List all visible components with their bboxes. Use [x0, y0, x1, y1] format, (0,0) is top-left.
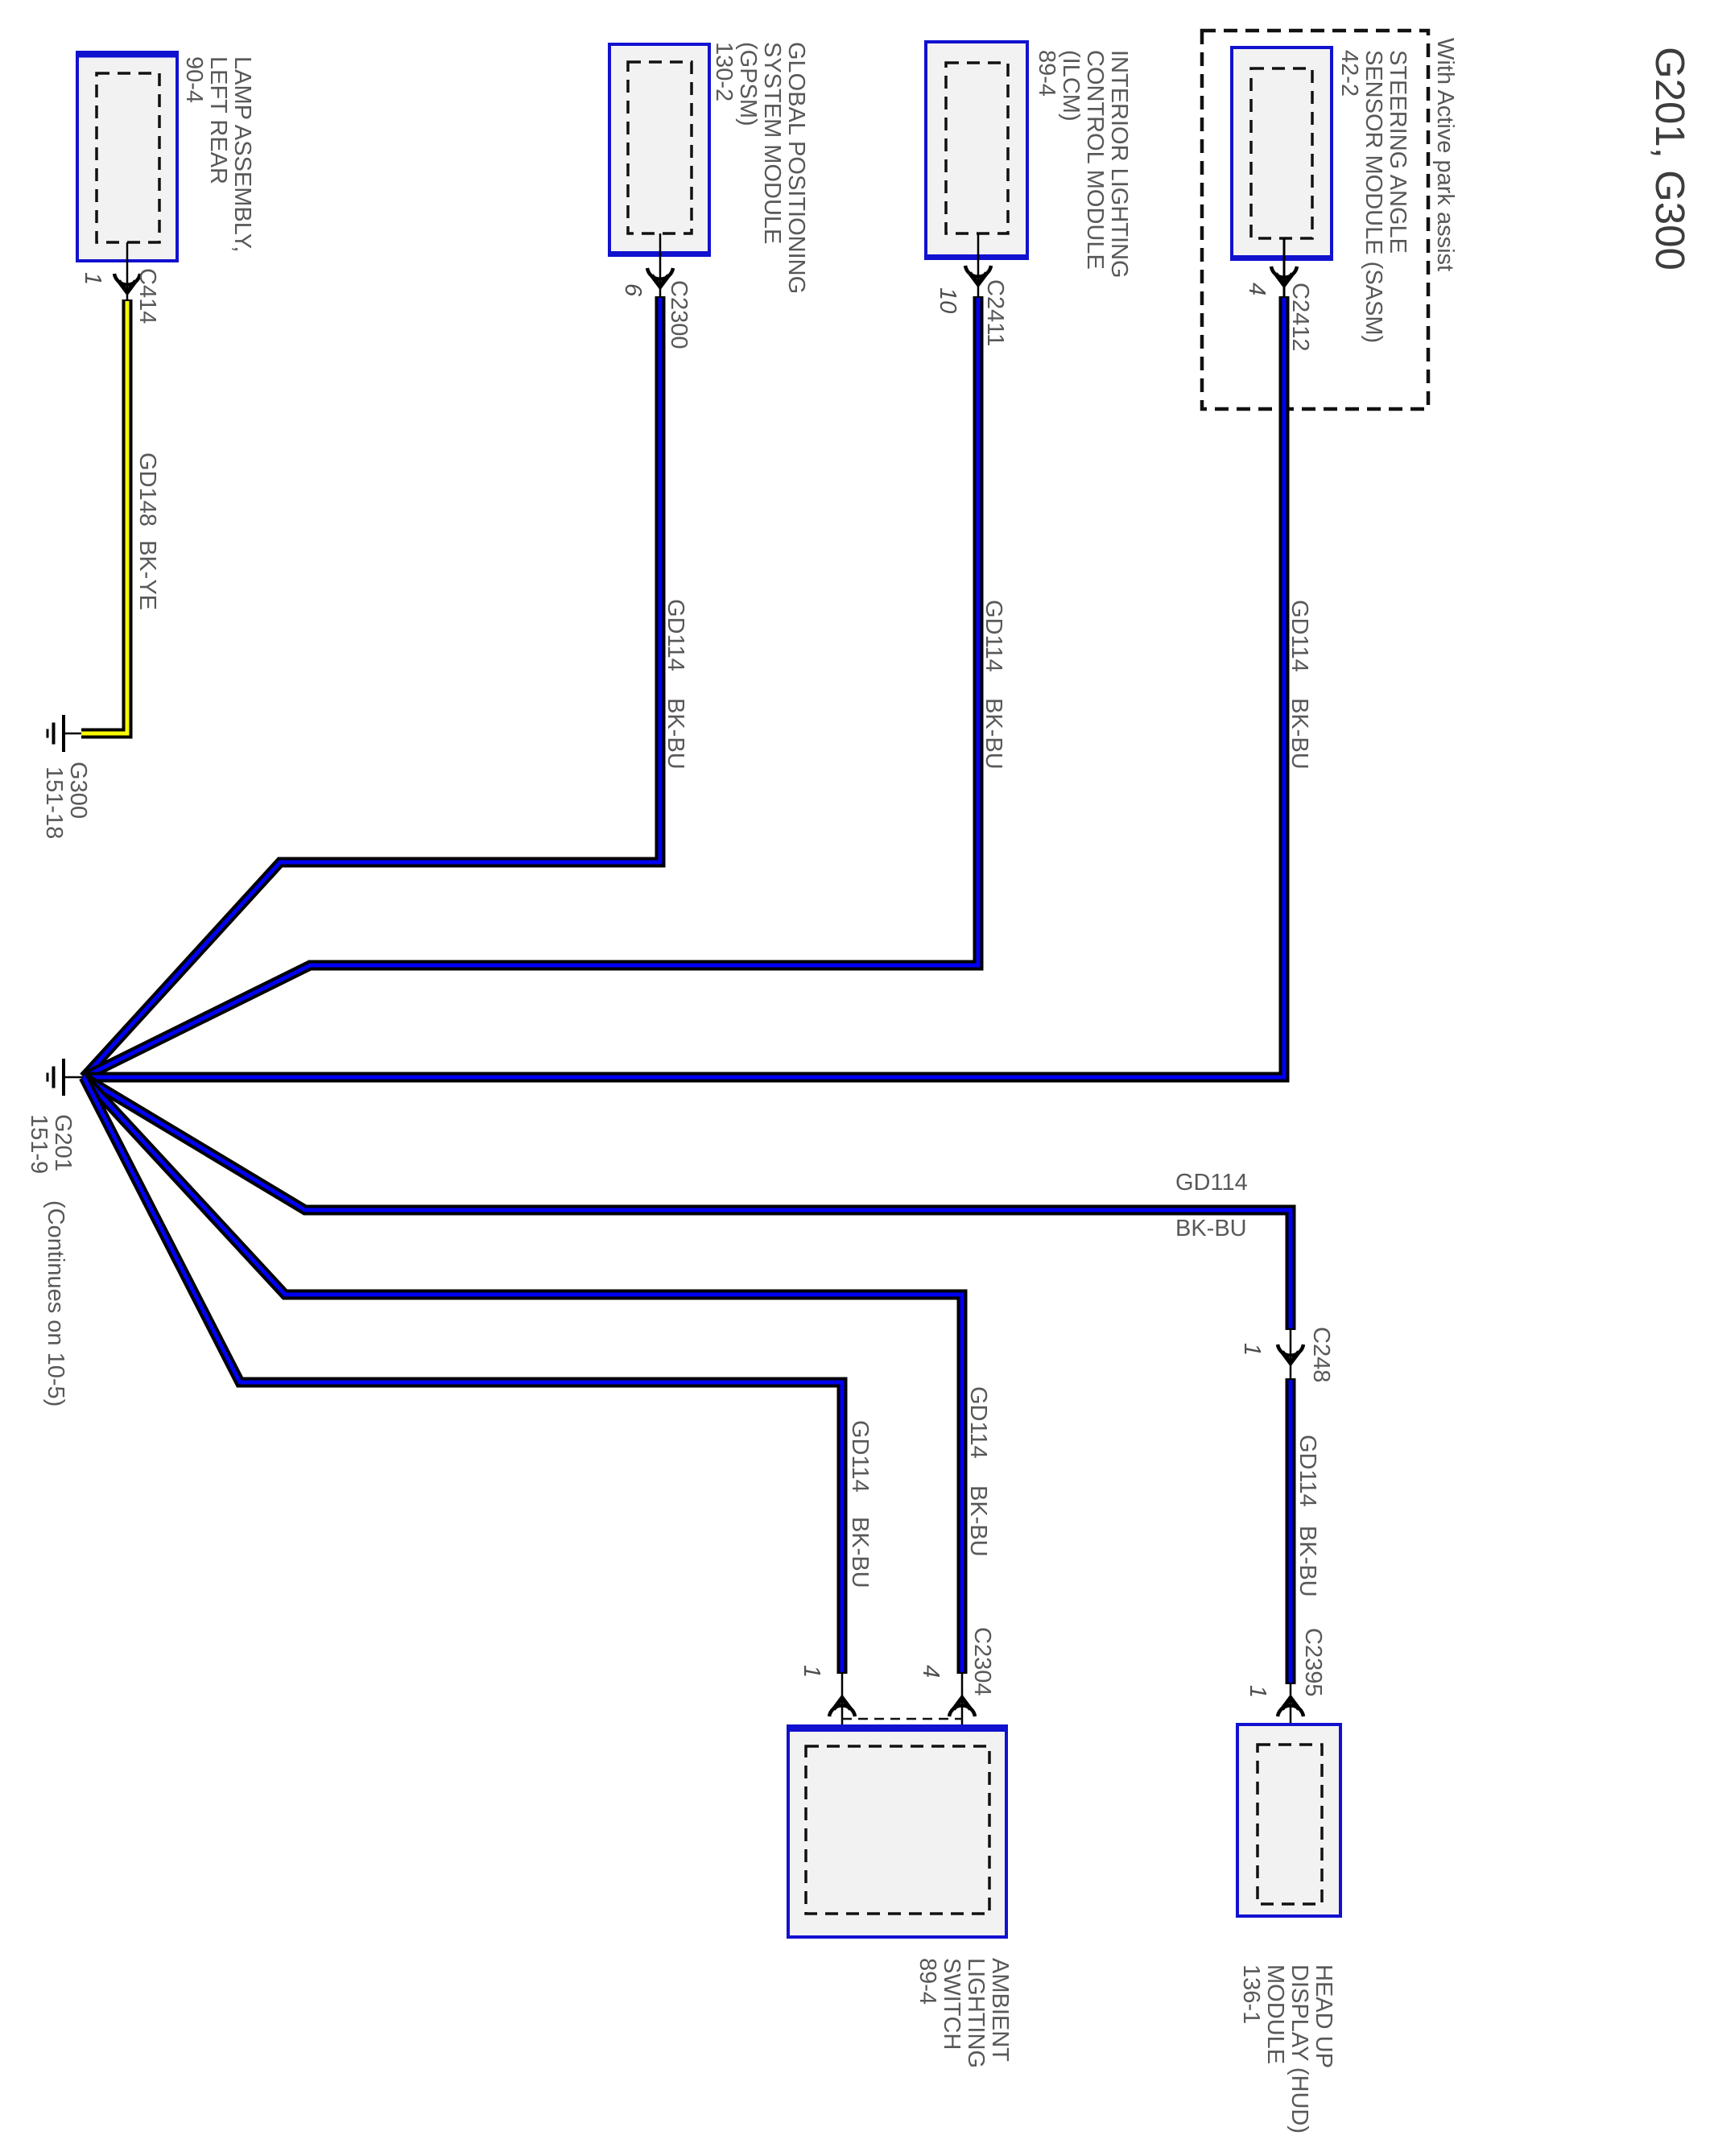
lead from ILCM to connector C2411 [977, 233, 980, 296]
svg-text:GD114: GD114 [663, 599, 688, 671]
lead from ambient switch pin 1 [841, 1674, 844, 1746]
ground G300 label [41, 762, 91, 839]
svg-text:BK-BU: BK-BU [981, 698, 1006, 770]
wire GD114 label (HUD branch horizontal) [1175, 1170, 1248, 1241]
lamp assembly label [181, 56, 255, 252]
svg-text:90-4: 90-4 [181, 56, 207, 103]
svg-text:LAMP ASSEMBLY,: LAMP ASSEMBLY, [229, 56, 255, 252]
dashed connector bridge C2304 [842, 1718, 962, 1720]
wire GD114 label (ambient pin 1 branch) [847, 1420, 873, 1588]
svg-text:10: 10 [935, 287, 960, 313]
global positioning system module box [608, 44, 711, 255]
lead from ambient switch pin 4 [961, 1674, 964, 1746]
wire GD114 BK-BU from C248 to C2395 [1286, 1378, 1296, 1684]
with active park assist dashed box [1202, 31, 1428, 409]
svg-text:151-9: 151-9 [26, 1114, 52, 1174]
svg-text:C248: C248 [1308, 1327, 1334, 1382]
head up display module box [1237, 1724, 1340, 1916]
wire GD114 label (HUD branch vertical) [1295, 1435, 1320, 1597]
svg-text:CONTROL MODULE: CONTROL MODULE [1082, 50, 1108, 270]
lead from C2395 into HUD module [1290, 1684, 1292, 1745]
svg-text:BK-BU: BK-BU [1175, 1216, 1247, 1241]
connector C248 arrow [1278, 1344, 1303, 1363]
wire GD114 label (GPSM branch) [663, 599, 688, 770]
svg-text:4: 4 [1244, 283, 1270, 295]
steering angle sensor module box [1230, 47, 1333, 259]
lead across connector C248 [1290, 1330, 1292, 1378]
ambient lighting switch label [915, 1958, 1013, 2068]
svg-text:GLOBAL POSITIONING: GLOBAL POSITIONING [783, 42, 809, 294]
wire GD114 BK-BU from G201 to ambient switch pin 1 [84, 1077, 842, 1674]
wire GD148 label [134, 452, 160, 610]
svg-text:42-2: 42-2 [1336, 50, 1362, 97]
lead from lamp assembly to connector C414 [126, 242, 129, 299]
svg-text:130-2: 130-2 [711, 42, 737, 101]
svg-text:GD114: GD114 [965, 1386, 991, 1459]
svg-text:4: 4 [918, 1665, 944, 1678]
svg-text:STEERING ANGLE: STEERING ANGLE [1385, 50, 1410, 254]
wire GD114 label (ILCM branch) [981, 600, 1006, 770]
ground G300 [47, 715, 81, 752]
svg-text:BK-BU: BK-BU [1295, 1526, 1320, 1597]
svg-text:BK-BU: BK-BU [663, 698, 688, 770]
ambient lighting switch box [787, 1726, 1008, 1937]
ILCM label [1034, 50, 1132, 279]
svg-text:AMBIENT: AMBIENT [987, 1958, 1013, 2062]
svg-text:1: 1 [1239, 1343, 1265, 1356]
svg-text:89-4: 89-4 [1034, 50, 1059, 97]
svg-text:G300: G300 [65, 762, 91, 819]
connector C2412 arrow [1271, 266, 1297, 285]
connector C2300 arrow [647, 268, 673, 287]
svg-text:(Continues on 10-5): (Continues on 10-5) [43, 1200, 68, 1406]
svg-text:G201, G300: G201, G300 [1647, 47, 1693, 271]
connector C2304 pin 1 arrow [829, 1698, 855, 1716]
svg-text:HEAD UP: HEAD UP [1311, 1964, 1336, 2068]
svg-text:SYSTEM MODULE: SYSTEM MODULE [759, 42, 785, 244]
svg-text:136-1: 136-1 [1238, 1964, 1264, 2024]
svg-text:G201: G201 [50, 1114, 76, 1171]
svg-text:DISPLAY (HUD): DISPLAY (HUD) [1287, 1964, 1312, 2133]
wire GD114 BK-BU from SASM to G201 [84, 296, 1284, 1077]
lead from GPSM to connector C2300 [659, 233, 662, 296]
svg-text:GD114: GD114 [1175, 1170, 1248, 1196]
svg-text:GD148: GD148 [134, 452, 160, 527]
wire GD148 BK-YE [81, 299, 127, 733]
svg-text:BK-BU: BK-BU [1287, 698, 1312, 770]
svg-text:C2411: C2411 [982, 279, 1008, 346]
svg-text:INTERIOR LIGHTING: INTERIOR LIGHTING [1106, 50, 1132, 279]
svg-text:LEFT REAR: LEFT REAR [205, 56, 231, 184]
GPSM label [711, 42, 809, 294]
svg-text:(GPSM): (GPSM) [735, 42, 761, 126]
svg-text:GD114: GD114 [1295, 1435, 1320, 1507]
interior lighting control module box [924, 42, 1029, 258]
HUD label [1238, 1964, 1336, 2133]
svg-text:C2412: C2412 [1287, 283, 1313, 351]
svg-text:With Active park assist: With Active park assist [1432, 38, 1458, 271]
wire GD114 label (SASM branch) [1287, 600, 1312, 770]
svg-text:GD114: GD114 [981, 600, 1006, 672]
ground G201 label [26, 1114, 76, 1174]
svg-text:SWITCH: SWITCH [939, 1958, 964, 2050]
svg-text:SENSOR MODULE (SASM): SENSOR MODULE (SASM) [1361, 50, 1386, 343]
svg-text:C2300: C2300 [666, 280, 692, 349]
lamp assembly left rear box [76, 52, 179, 261]
svg-text:LIGHTING: LIGHTING [963, 1958, 989, 2068]
connector C414 arrow [114, 274, 140, 292]
wire GD114 BK-BU from G201 to ambient switch pin 4 [84, 1077, 962, 1674]
svg-text:C2304: C2304 [969, 1627, 995, 1695]
svg-text:151-18: 151-18 [41, 766, 67, 839]
svg-text:BK-BU: BK-BU [847, 1517, 873, 1588]
svg-text:BK-YE: BK-YE [134, 540, 160, 610]
connector C2395 arrow [1278, 1698, 1303, 1716]
wire GD114 BK-BU from GPSM to G201 [84, 296, 660, 1077]
svg-text:GD114: GD114 [1287, 600, 1312, 672]
wire GD114 BK-BU from ILCM to G201 [84, 296, 978, 1077]
svg-text:89-4: 89-4 [915, 1958, 940, 2005]
svg-text:C2395: C2395 [1300, 1628, 1326, 1696]
connector C2304 pin 4 arrow [949, 1698, 975, 1716]
svg-text:1: 1 [799, 1665, 824, 1678]
svg-text:MODULE: MODULE [1262, 1964, 1288, 2064]
svg-text:C414: C414 [134, 268, 160, 324]
lead from SASM to connector C2412 [1283, 238, 1286, 296]
wire GD114 label (ambient pin 4 branch) [965, 1386, 991, 1557]
svg-text:6: 6 [620, 283, 646, 297]
connector C2411 arrow [965, 266, 991, 284]
svg-text:GD114: GD114 [847, 1420, 873, 1493]
svg-text:(ILCM): (ILCM) [1058, 50, 1084, 122]
ground G201 [47, 1059, 84, 1096]
svg-text:1: 1 [80, 272, 105, 285]
SASM label [1336, 50, 1410, 343]
svg-text:BK-BU: BK-BU [965, 1485, 991, 1557]
wire GD114 BK-BU from G201 to HUD [84, 1077, 1291, 1330]
svg-text:1: 1 [1245, 1685, 1270, 1698]
